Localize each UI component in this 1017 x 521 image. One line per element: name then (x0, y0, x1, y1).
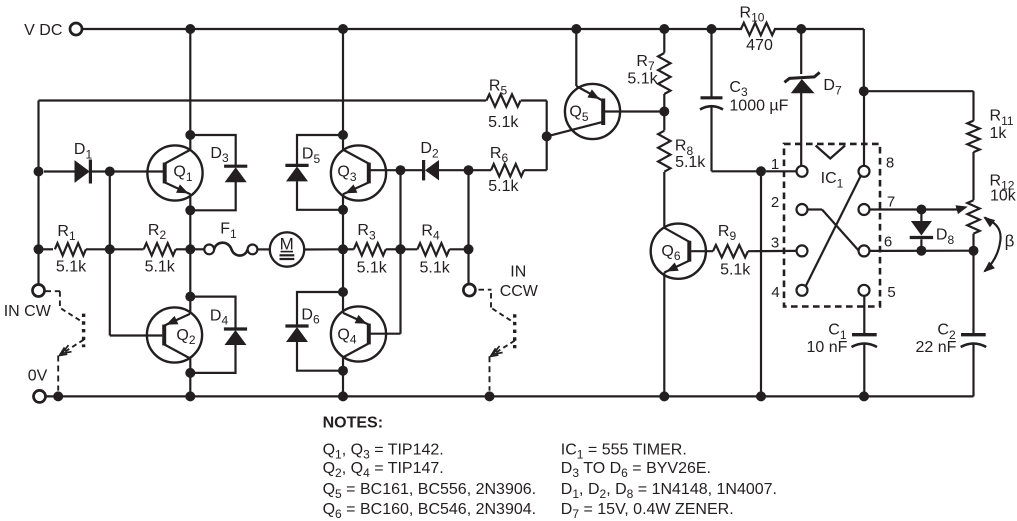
node D2 cathode (464, 165, 474, 175)
wire Q5 emitter (575, 29, 577, 86)
wire D1 to Q1 base (110, 170, 165, 172)
svg-text:V DC: V DC (24, 22, 62, 39)
wire F1 to motor (257, 248, 269, 250)
resistor R11 (967, 91, 1014, 200)
node D2 anode (396, 165, 406, 175)
pin 1 (771, 156, 808, 177)
fuse F1 (204, 221, 257, 256)
svg-text:5.1k: 5.1k (56, 259, 87, 276)
svg-text:22 nF: 22 nF (916, 339, 957, 356)
resistor R7 (627, 29, 670, 112)
wire Q1 emitter (189, 194, 191, 210)
svg-text:10k: 10k (990, 188, 1017, 205)
node R3-R4 (396, 244, 406, 254)
node gnd Q4 (338, 391, 348, 401)
node CW ground (53, 391, 63, 401)
pin 7 (859, 193, 896, 215)
wire Q5 base (605, 110, 664, 112)
node rail-Q5 (571, 24, 581, 34)
pin 3 (771, 234, 808, 256)
wire Q3 base (368, 169, 401, 171)
diode D5 (285, 135, 343, 210)
wire IC internal link A (806, 176, 861, 286)
wire pin6 lead (870, 250, 974, 252)
node D5 cathode junction (338, 130, 348, 140)
node R2-F1 (185, 244, 195, 254)
wire Q2 base riser (110, 172, 163, 336)
diode D3 (190, 135, 247, 210)
zener D7 (784, 29, 842, 166)
node pin8 supply (859, 86, 869, 96)
svg-text:IN CW: IN CW (4, 303, 52, 320)
wire Q4 base riser (369, 170, 401, 334)
terminal IN CW (4, 285, 52, 320)
wire Q3 emitter (342, 194, 344, 210)
diode D4 (190, 297, 247, 373)
diode D6 (285, 292, 343, 371)
node Q5 base node (659, 107, 669, 117)
switch IN CW lever (46, 291, 84, 355)
transistor Q1 (147, 145, 202, 200)
svg-text:IN: IN (510, 263, 526, 280)
node Q1 emitter (185, 205, 195, 215)
svg-text:5.1k: 5.1k (145, 259, 176, 276)
motor M (270, 232, 304, 266)
pin 6 (859, 233, 893, 256)
svg-text:β: β (1005, 231, 1015, 250)
wire IC internal link B (808, 210, 859, 251)
transistor Q5 (547, 84, 620, 139)
node Q3 emitter (338, 205, 348, 215)
node gnd Q6 (659, 391, 669, 401)
node gnd C1 (859, 391, 869, 401)
node Q1 base (105, 167, 115, 177)
pin 5 (859, 284, 896, 301)
node gnd Q2 (185, 391, 195, 401)
svg-text:4: 4 (771, 284, 779, 301)
diode D1 (44, 141, 110, 183)
svg-text:0V: 0V (28, 368, 48, 385)
wire pin1 lead (766, 170, 797, 172)
resistor R4 (401, 222, 469, 276)
svg-text:5.1k: 5.1k (675, 154, 706, 171)
node D6 junction (338, 287, 348, 297)
wire Q2 collector (189, 358, 191, 396)
wire supply to R11 (864, 90, 974, 92)
node pin1 junction (756, 166, 766, 176)
node D8 cathode (916, 246, 926, 256)
pin 8 (859, 154, 895, 176)
wire motor to R3 (304, 248, 343, 250)
wire Q3 collector (342, 29, 344, 150)
svg-text:7: 7 (887, 193, 895, 210)
wire Q4 collector (342, 357, 344, 396)
wire pin1 ground drop (760, 171, 762, 396)
ground rail (45, 395, 973, 397)
wire Q3 emitter to R3 (342, 210, 344, 250)
svg-text:470: 470 (746, 37, 773, 54)
node rail-Q3 (338, 24, 348, 34)
wire left rail (37, 101, 39, 285)
node rail-R7 (659, 24, 669, 34)
pin 4 (771, 284, 807, 301)
wire pin8 lead (863, 91, 865, 166)
wire Q1-Q2 link (189, 210, 191, 314)
node pin1 ground (756, 391, 766, 401)
pin 2 (771, 194, 808, 215)
resistor R3 (343, 222, 401, 276)
terminal 0V (28, 368, 48, 403)
node Q2 collector (185, 368, 195, 378)
node R2 drop (185, 292, 195, 302)
svg-text:5.1k: 5.1k (720, 261, 751, 278)
wire IN CCW to 0V rail (489, 356, 491, 390)
node Q4 collector (338, 366, 348, 376)
wire V+ right corner (863, 29, 865, 91)
node pin6-R12 (969, 246, 979, 256)
svg-text:3: 3 (771, 234, 779, 251)
terminal V DC (24, 22, 82, 39)
node D8 anode (916, 205, 926, 215)
op-amp U1 IC1 555 box (784, 144, 880, 307)
transistor Q2 (147, 307, 202, 362)
wire pin7 lead (870, 205, 968, 214)
terminal IN CCW (463, 263, 538, 300)
node R4 right (464, 244, 474, 254)
wire V+ rail (82, 28, 864, 30)
node D3 cathode junction (185, 130, 195, 140)
resistor R9 (713, 223, 797, 278)
svg-text:1k: 1k (990, 125, 1008, 142)
capacitor C2 (916, 322, 987, 397)
resistor R5 (487, 77, 521, 131)
svg-text:5.1k: 5.1k (488, 178, 519, 195)
node R1 left (34, 244, 44, 254)
wire Q1 collector (189, 29, 191, 150)
transistor Q6 (651, 224, 706, 279)
wire R4 to IN CCW (467, 249, 469, 284)
node CCW ground (485, 391, 495, 401)
capacitor C3 (700, 29, 789, 171)
resistor R1 (39, 223, 110, 276)
wire Q6 emitter (663, 273, 665, 397)
svg-text:5: 5 (887, 284, 895, 301)
beta arrow (983, 217, 1014, 273)
node Q5 collector (542, 131, 552, 141)
transistor Q4 (331, 306, 386, 361)
svg-text:8: 8 (886, 154, 894, 171)
wire Q3-Q4 link (342, 249, 344, 313)
svg-text:CCW: CCW (500, 283, 539, 300)
svg-text:NOTES:: NOTES: (323, 414, 383, 431)
svg-text:2: 2 (771, 194, 779, 211)
wire R2 to F1 (190, 248, 204, 250)
wire IN CW to 0V rail (57, 356, 59, 391)
wire R5 line (39, 101, 547, 137)
svg-text:10 nF: 10 nF (807, 339, 848, 356)
svg-text:5.1k: 5.1k (357, 259, 388, 276)
svg-text:1000 µF: 1000 µF (729, 97, 788, 114)
node rail-D7 (796, 24, 806, 34)
svg-text:M: M (280, 234, 294, 253)
wire D2 cathode drop (467, 170, 469, 249)
resistor R6 (469, 136, 547, 195)
node D1 anode (34, 167, 44, 177)
node R1-R2 (105, 244, 115, 254)
potentiometer R12 (967, 173, 1016, 335)
diode D8 (910, 210, 955, 251)
resistor R2 (110, 222, 191, 276)
diode D2 (401, 140, 469, 180)
svg-text:5.1k: 5.1k (627, 71, 658, 88)
capacitor C1 (807, 296, 877, 397)
transistor Q3 (331, 145, 386, 200)
svg-text:5.1k: 5.1k (419, 259, 450, 276)
svg-text:5.1k: 5.1k (488, 114, 519, 131)
node R3 left (338, 244, 348, 254)
node rail-Q1 (185, 24, 195, 34)
wire Q6 base (691, 250, 713, 252)
switch IN CCW lever (479, 290, 515, 357)
resistor R8 (658, 112, 706, 227)
node Q4 base node (396, 244, 406, 254)
notes text (323, 414, 777, 521)
node rail-C3 (707, 24, 717, 34)
svg-text:6: 6 (884, 233, 892, 250)
resistor R10 (740, 5, 775, 55)
